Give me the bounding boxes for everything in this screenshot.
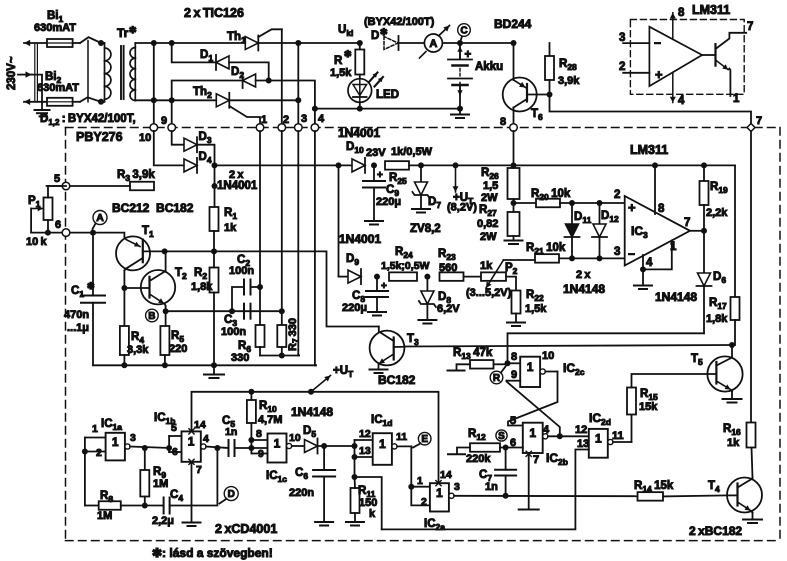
svg-text:14: 14 [194,419,206,431]
gate IC1c [268,434,287,463]
svg-text:5: 5 [510,415,516,427]
svg-text:A: A [429,38,437,50]
svg-text:4,7M: 4,7M [258,414,282,426]
node C7 bottom [503,493,509,499]
transformer core [120,46,122,99]
svg-text:13: 13 [577,438,589,450]
IC1b output [201,444,206,449]
svg-text:10: 10 [139,132,151,144]
terminal 9 [168,124,176,132]
svg-text:9: 9 [511,369,517,381]
resistor R28 [549,43,551,56]
diode D* (dashed) [384,37,398,50]
svg-text:1M: 1M [97,510,112,522]
svg-text:7: 7 [684,217,690,229]
svg-text:✱: ✱ [87,281,95,291]
svg-text:C: C [460,26,467,37]
transformer Tr primary winding [87,41,89,102]
transistor T2 (BC182 NPN) [141,270,175,304]
svg-text:100n: 100n [229,265,254,277]
svg-text:220k: 220k [466,453,491,465]
diode D9 [348,270,361,283]
node B emitter [163,308,169,314]
svg-text:2,2k: 2,2k [706,207,728,219]
svg-text:10: 10 [542,350,554,362]
diode D6 [703,231,705,273]
svg-text:Tr: Tr [117,26,129,40]
wire terminal8 to rail [513,131,515,165]
svg-text:23V: 23V [366,147,386,159]
wire D2 cathode to t9 column [172,81,243,125]
node primary top [98,40,104,46]
IC2c output 10 [540,369,545,374]
svg-text:1N4148: 1N4148 [291,405,333,419]
ground C9 [365,220,383,222]
ground T4 [743,519,762,521]
node R5 gnd [162,362,168,368]
svg-text:3: 3 [301,113,307,125]
svg-text:A: A [96,212,104,224]
node R pin8 [505,360,511,366]
svg-text:1N4001: 1N4001 [338,126,380,140]
ground C6 [315,521,333,523]
svg-text:1N4148: 1N4148 [655,290,697,304]
svg-text:LM311: LM311 [630,143,668,157]
svg-text:1N4001: 1N4001 [339,232,381,246]
node IC3 pin8 rail [652,162,658,168]
svg-text:1: 1 [595,432,602,446]
svg-text:1: 1 [670,241,677,253]
resistor R26 [508,168,520,199]
node T6 collector rail [511,40,517,46]
inset pin 2 [623,72,649,74]
svg-text:12: 12 [575,424,587,436]
node IC1d in [352,443,358,449]
svg-text:3: 3 [130,432,136,444]
node t4 bottom-rail junction [312,106,318,112]
ground R22 [515,314,517,323]
inset output transistor [702,54,715,56]
svg-text:330: 330 [231,352,249,364]
fuse Bi1 [47,39,73,47]
resistor R9 [144,448,146,470]
node IC3 gnd [640,266,646,272]
svg-text:10 k: 10 k [26,236,47,248]
svg-text:4: 4 [543,424,550,436]
svg-text:✱: ✱ [129,25,137,35]
wire T3-T5 collector line [404,345,732,347]
node R10 bottom [248,437,254,443]
svg-text:2 x TIC126: 2 x TIC126 [184,6,244,20]
svg-text:0,82: 0,82 [477,218,498,230]
svg-text:2,2μ: 2,2μ [152,515,174,527]
transistor T1 (BC212 PNP) [116,236,150,270]
svg-text:+: + [465,49,472,61]
LM311 inset dashed box [630,20,744,95]
resistor R25 [385,161,409,170]
wire R16 to T4 [752,448,753,478]
transistor T3 (BC182 NPN) [370,331,405,366]
svg-text:1n: 1n [485,481,498,493]
svg-text:R13 47k: R13 47k [453,347,493,361]
resistor R8 [85,505,99,507]
resistor R15 [631,415,633,443]
resistor R17 [734,165,736,297]
node T2 collector [162,248,168,254]
IC1c output 10 [287,443,292,448]
wire fuse2 to primary bottom [73,101,80,103]
wire secondary top rail [135,42,245,44]
svg-text:1,5k: 1,5k [330,67,352,79]
IC1d output 11 [392,444,397,449]
svg-text:1k: 1k [480,260,493,272]
node D9 out C8 [374,274,380,280]
svg-text:1N4001: 1N4001 [217,180,258,192]
svg-text:...1μ: ...1μ [67,322,89,334]
svg-text:R: R [493,373,501,384]
wire A to T1 emitter [93,233,124,238]
wire node down to R3 node [214,165,216,207]
wire terminal10 vertical [153,43,155,124]
terminal 2 [278,124,286,132]
op-amp triangle (inset) [649,27,702,86]
svg-text:(3...5,2V): (3...5,2V) [466,287,512,299]
P1 wiper arrow [31,208,43,210]
ground R27 [513,236,515,240]
diode D11 [571,203,573,224]
svg-text:PBY276: PBY276 [76,130,123,144]
node D12 top [597,200,603,206]
svg-text:LED: LED [376,89,399,101]
wire R26-R27 junction [513,199,515,212]
wire R11 node to feedback [355,477,382,529]
LED symbol [353,85,367,96]
circled node A [93,211,107,225]
svg-text:BC182: BC182 [378,373,416,387]
svg-text:9: 9 [161,115,167,127]
IC2b pin7 ground [526,451,531,456]
svg-text:1k: 1k [224,222,237,234]
svg-text:6: 6 [510,437,516,449]
svg-text:8: 8 [658,203,665,215]
svg-text:2: 2 [614,189,620,201]
svg-text:1k: 1k [727,437,740,449]
mains middle prong arrow (PE) [18,74,32,76]
svg-text:4: 4 [678,95,685,107]
wire pin3 line [560,257,625,259]
node C4-C5 [214,445,220,451]
resistor R2 [210,268,219,293]
zener D7 [420,165,422,182]
ground IC3 [642,269,644,285]
node R19 rail [701,162,707,168]
+UT arrow (bottom) [308,389,314,395]
svg-text:1M: 1M [153,478,168,490]
wire t4 vertical inside [314,131,316,365]
svg-text:ZV8,2: ZV8,2 [410,223,441,235]
node R10 rail [248,389,254,395]
svg-text:11: 11 [612,430,624,442]
svg-text:5: 5 [54,173,60,185]
svg-text:14: 14 [440,469,452,481]
wire fuse1 to primary (switch stroke) [73,42,80,44]
svg-text:2: 2 [421,496,427,508]
circled node S [496,430,507,441]
wire secondary bottom line [135,99,217,101]
ground T3 [370,369,388,371]
thyristor Th2 [216,94,229,107]
node Akku top [457,40,463,46]
wire terminal10 to D4 [154,131,183,165]
svg-text:1: 1 [112,435,119,449]
svg-text:BD244: BD244 [494,17,532,31]
PBY276 dashed box top edge [66,127,781,129]
resistor R7 [277,325,286,347]
node D12 bottom [597,255,603,261]
wire t3 vertical inside [297,131,299,356]
wire terminal4 vertical [314,109,316,125]
node R7 bottom [279,353,285,359]
IC2d pin13 wire [382,450,589,530]
node rail x153 [151,40,157,46]
wire terminal9 to D3 [172,131,183,145]
node Th2 t3 junction [295,97,301,103]
IC2a pin14 xmark [436,481,441,486]
svg-text:560: 560 [439,262,457,274]
node R9 top [142,445,148,451]
svg-text:230V~: 230V~ [6,56,18,90]
diode D1 [216,56,229,69]
capacitor C2 [232,287,244,311]
svg-text:1,5k: 1,5k [525,303,547,315]
wire pin8 to IC2c [508,362,521,364]
svg-text:8: 8 [511,351,517,363]
op-amp IC3 triangle [625,196,690,266]
wire IC3 output [690,230,704,232]
node R3-R1 [212,183,218,189]
capacitor C6 [323,446,325,470]
transformer Tr secondary winding [134,43,136,100]
transistor T4 (BC182 NPN) [727,478,762,513]
svg-text:1,8k: 1,8k [706,313,728,325]
svg-text:+: + [377,170,383,181]
IC1b pin7 xmark [189,459,194,464]
node IC3 out [701,228,707,234]
resistor R13 [470,360,494,369]
node Akku bottom [457,106,463,112]
node IC1b pin6 [166,445,172,451]
IC3 pin 1 [643,241,672,270]
svg-text:2 xCD4001: 2 xCD4001 [215,522,277,536]
node rail t3 [295,40,301,46]
wire D3 cathode to node [197,145,215,166]
diode D12 (zener) [599,203,601,224]
svg-text:1k/0,5W: 1k/0,5W [391,146,433,158]
resistor R4 [123,288,125,326]
svg-text:8: 8 [500,116,506,128]
wire rail Th1 to Uki node [258,42,360,44]
svg-text:15k: 15k [639,401,658,413]
svg-text:1: 1 [436,486,443,500]
svg-text:6,2V: 6,2V [437,303,460,315]
thyristor Th1 gate [258,29,282,37]
earth ground symbol [35,109,50,111]
battery charge arrow bottom [459,83,461,96]
circled node R [490,371,503,384]
svg-text:7: 7 [196,464,202,476]
svg-text:R14 15k: R14 15k [634,480,674,494]
node D11 bottom [569,255,575,261]
wire R15 to T5 base [632,374,708,388]
fuse Bi2 inner line [49,101,72,103]
ground T5 [723,398,742,400]
svg-text:✱: ✱ [344,49,352,59]
capacitor C7 [505,448,507,470]
svg-text:7: 7 [747,21,753,33]
IC2c pin9 stub [507,380,521,382]
resistor R12 [470,443,500,452]
resistor R21 [535,254,559,263]
svg-text:+: + [628,200,636,215]
svg-text:1,5: 1,5 [483,180,498,192]
ground R11 [346,521,364,523]
P2 wiper [486,260,504,288]
svg-text:1: 1 [527,360,534,374]
capacitor C3 [243,304,245,319]
resistor R3 [130,182,154,191]
wire raw dc down to D9 [338,165,340,276]
node IC1d pin13 [352,454,358,460]
wire C4 feedback [170,448,218,506]
LED circle [359,75,361,80]
wire R6R7 bottom to t3 [259,347,261,356]
svg-text:1n: 1n [225,426,237,438]
wire C5 to IC1c [235,447,269,449]
terminal 7 [747,124,755,132]
IC1b input bus [168,436,170,452]
IC1c pin9 stub [251,448,267,454]
svg-text:✱: ✱ [380,27,388,37]
inset pin 4 arrow [672,72,674,102]
svg-text:3,9k: 3,9k [558,75,580,87]
wire B line [166,310,282,312]
node D10 out C9 [371,162,377,168]
svg-text:R3 3,9k: R3 3,9k [117,169,155,183]
wire rectified line to D10 [215,164,352,166]
wire t1 vertical inside [259,131,261,287]
svg-text:E: E [421,434,428,445]
fuse Bi1 inner line [49,42,72,44]
terminal 10 [150,124,158,132]
cross-couple IC2c out to IC2b pin5 [508,372,558,426]
capacitor C4 [163,498,165,514]
wire LED bottom rail [359,102,361,108]
wire collector line to T3 [214,251,379,326]
node D11 top [569,200,575,206]
resistor R27 [508,212,520,236]
svg-text:8: 8 [256,428,262,440]
node R2 gnd [211,362,217,368]
+UT output arrow [453,162,459,168]
wire R25 to rail right [409,164,735,166]
resistor R1 [210,207,219,231]
wire R1 bottom to collector line [213,231,215,251]
svg-text:1,5k;0,5W: 1,5k;0,5W [381,260,430,272]
terminal 5 [62,182,70,190]
svg-text:1: 1 [379,437,386,451]
wire D2 anode right to t4 column [256,81,315,109]
svg-text:1: 1 [261,114,267,126]
svg-text:+: + [655,67,663,82]
IC1c pin8 stub [251,439,267,441]
+UT bottom rail [192,392,439,483]
R13 ground stub [457,364,471,370]
svg-text:12: 12 [359,428,371,440]
IC3 pin 4 [642,255,644,269]
gate IC2b [523,423,543,453]
svg-text:9: 9 [258,448,264,460]
svg-text:100n: 100n [221,326,246,338]
svg-text:220μ: 220μ [376,196,401,208]
svg-text:4: 4 [646,257,653,269]
wire P1 bottom to terminal6 [47,220,49,233]
svg-text:−: − [654,36,661,50]
ammeter needle arrow [420,52,427,59]
wire terminal3 vertical [297,43,299,124]
resistor R24 [389,272,417,281]
wire P2 to R22 [506,277,516,291]
svg-text:−: − [628,247,635,261]
svg-text:1: 1 [92,423,98,435]
svg-text:BC212 BC182: BC212 BC182 [112,201,194,215]
svg-text:B: B [148,311,155,322]
node Uki R* tap [357,40,363,46]
svg-text:2 xBC182: 2 xBC182 [689,524,742,538]
terminal 8 [510,124,518,132]
node raw dc [336,162,342,168]
gate IC2d [589,429,608,458]
svg-text:4: 4 [203,433,209,445]
inset emitter [716,60,729,70]
svg-text:220n: 220n [289,487,314,499]
svg-text:10: 10 [289,432,301,444]
node LED bottom [357,106,363,112]
ground D7 [412,208,430,210]
svg-text:630mAT: 630mAT [34,22,76,34]
node IC1a pin2 [82,449,88,455]
svg-text:6: 6 [172,446,178,458]
svg-text:R21 10k: R21 10k [526,242,566,256]
mains line arrow top (L) [24,42,47,44]
svg-text:(8,2V): (8,2V) [447,202,477,214]
svg-text:5: 5 [171,422,177,434]
svg-text:LM311: LM311 [692,3,730,17]
ground stub [213,365,215,374]
wire R28 to T6 base [549,80,551,95]
svg-text:11: 11 [396,431,407,443]
svg-text:3: 3 [454,481,460,493]
PBY276 dashed box right edge [779,128,781,541]
svg-text:2: 2 [619,61,625,73]
terminal 4 [311,124,319,132]
svg-text:13: 13 [359,445,371,457]
IC2b output 4 [543,434,548,439]
svg-text:1: 1 [188,435,195,449]
wire D* to ammeter [400,42,424,44]
svg-text:1: 1 [417,475,423,487]
inset pin 8 arrow [672,13,674,40]
IC3 pin 8 [654,165,656,214]
